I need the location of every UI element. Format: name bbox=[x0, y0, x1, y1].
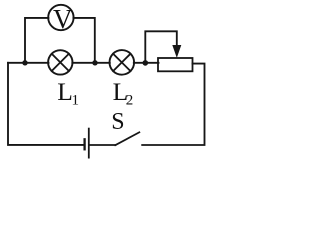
rheostat R body bbox=[158, 58, 193, 71]
wire main row left segment bbox=[8, 62, 49, 64]
battery positive plate (long) bbox=[88, 129, 90, 158]
rheostat slider wire bbox=[145, 31, 177, 61]
svg-text:S: S bbox=[111, 109, 124, 135]
battery negative plate (short) bbox=[83, 139, 85, 149]
svg-text:2: 2 bbox=[126, 92, 134, 108]
voltmeter V bbox=[48, 4, 73, 34]
label L2 bbox=[113, 77, 134, 109]
wire L1 to L2 bbox=[72, 62, 110, 64]
wire battery to switch bbox=[90, 144, 116, 146]
wire voltmeter left branch bbox=[25, 18, 48, 62]
svg-text:V: V bbox=[53, 4, 73, 34]
wire voltmeter right branch bbox=[73, 18, 94, 62]
junction dot C (slider tap) bbox=[143, 60, 149, 66]
switch S lever bbox=[115, 132, 139, 145]
label S bbox=[111, 109, 124, 135]
label L1 bbox=[57, 77, 79, 108]
wire L2 to rheostat bbox=[134, 62, 159, 64]
svg-text:1: 1 bbox=[72, 92, 80, 108]
rheostat slider arrowhead bbox=[172, 45, 181, 58]
lamp L1 bbox=[48, 50, 72, 74]
junction dot B (right voltmeter tap) bbox=[92, 60, 97, 65]
junction dot A (left, voltmeter tap) bbox=[22, 60, 27, 65]
wire rheostat right to bottom bbox=[142, 64, 204, 145]
lamp L2 bbox=[110, 50, 135, 75]
wire left vertical and bottom to battery bbox=[8, 63, 83, 145]
